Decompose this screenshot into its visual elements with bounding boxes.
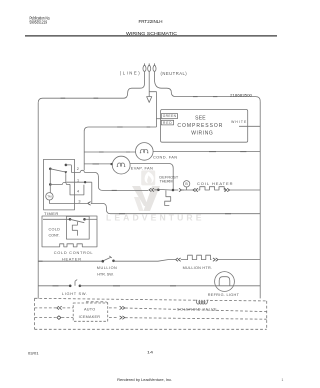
svg-text:(LINE): (LINE) — [120, 71, 140, 76]
cold control blade — [70, 219, 84, 222]
dashed wire to icemaker upper — [35, 308, 267, 312]
wire: terminal 2 out with hop, to red riser — [71, 170, 84, 172]
timer motor circle TM — [46, 193, 53, 200]
svg-text:WIRING: WIRING — [191, 130, 213, 136]
wire: terminal 2 continues to defrost drop — [84, 172, 148, 190]
plug prong (ground) — [148, 63, 151, 71]
plug prong (line) — [143, 63, 146, 71]
wire: dot A to dot C and timer motor — [49, 169, 51, 193]
connector chevrons before coil heater — [193, 188, 198, 191]
wire: between therm and relay circle — [174, 189, 178, 191]
svg-text:SEE: SEE — [195, 116, 206, 122]
svg-text:MULLION: MULLION — [97, 266, 117, 270]
svg-text:COLD: COLD — [49, 228, 61, 232]
svg-text:COLD CONTROL: COLD CONTROL — [54, 250, 94, 255]
svg-text:COND. FAN: COND. FAN — [153, 155, 177, 160]
compressor box — [161, 110, 248, 143]
mullion switch blade — [104, 256, 112, 261]
svg-text:Rendered by LeadVenture, Inc.: Rendered by LeadVenture, Inc. — [117, 378, 172, 382]
svg-text:AUTO: AUTO — [84, 307, 95, 311]
svg-text:ICEMAKER: ICEMAKER — [79, 315, 101, 319]
svg-text:EVAP. FAN: EVAP. FAN — [131, 165, 153, 170]
mullion heater element — [181, 255, 212, 259]
splice mark on cond fan wire — [209, 151, 216, 153]
splice mark on cond fan feed right — [126, 151, 130, 153]
green terminal tab — [161, 114, 177, 119]
splice mark on NEUTRAL wire — [213, 96, 217, 98]
cold control inner switch box — [66, 216, 89, 239]
mullion switch dot left — [102, 260, 105, 263]
defrost therm contact dot left — [157, 189, 160, 192]
wire: cond fan feed — [84, 151, 135, 153]
defrost therm contact dot right — [172, 189, 175, 192]
header rule — [25, 35, 277, 37]
wire: chord through lamp — [215, 285, 235, 287]
wire: red from compressor to timer feed — [84, 127, 156, 170]
light switch plunger — [75, 280, 77, 286]
splice mark on red wire — [147, 126, 151, 128]
svg-text:14: 14 — [147, 351, 153, 355]
svg-text:HTR. SW.: HTR. SW. — [97, 273, 113, 277]
connector chevrons after therm — [179, 188, 184, 191]
wire: ground branch to compressor green — [149, 92, 156, 127]
wire: mullion heater to right rail — [218, 259, 260, 261]
ground symbol arrow — [147, 97, 152, 103]
svg-text:5995351219: 5995351219 — [30, 20, 48, 25]
wire: mullion row to heater — [114, 260, 176, 262]
svg-text:(NEUTRAL): (NEUTRAL) — [161, 71, 188, 76]
wire: terminal 3 row to right rail with jog — [92, 203, 260, 213]
junction dot terminal 1 — [84, 181, 86, 183]
wire: dot C to terminal 4 with hop — [50, 182, 70, 184]
svg-text:REFRIG. LIGHT: REFRIG. LIGHT — [208, 293, 240, 297]
svg-text:03/01: 03/01 — [28, 352, 39, 356]
timer contact dot A — [49, 168, 52, 171]
connector chevrons before mullion heater — [176, 258, 181, 261]
defrost therm bimetal staircase — [165, 190, 171, 205]
wire: terminal 4 loop — [70, 184, 84, 195]
dashed stub from icemaker top — [86, 302, 108, 303]
svg-text:TIMER: TIMER — [44, 211, 58, 216]
svg-text:MULLION HTR.: MULLION HTR. — [183, 266, 212, 270]
timer switch arm — [50, 169, 65, 172]
terminal symbol icemaker lower in — [57, 316, 61, 320]
splice mark on LINE wire — [94, 97, 99, 99]
splice mark on light row — [113, 285, 120, 287]
defrost limit circle B — [183, 181, 189, 187]
wire: evap fan to defrost node — [130, 164, 173, 190]
wire: light row to lamp — [80, 285, 215, 287]
timer contact dot B — [65, 164, 68, 167]
cold control box with heater bumps in bottom edge — [42, 216, 97, 247]
icemaker harness dashed bottom border — [35, 328, 267, 330]
defrost therm blade — [158, 188, 173, 191]
icemaker harness dashed top border — [35, 298, 267, 301]
splice mark on LINE wire — [61, 97, 66, 99]
cond fan motor circle — [136, 143, 154, 161]
connector chevrons before defrost therm — [149, 188, 157, 191]
connector chevrons after coil heater — [224, 188, 229, 191]
splice mark on terminal 3 row right — [225, 213, 231, 215]
wire: LINE from plug to left rail — [38, 71, 144, 102]
splice mark on NEUTRAL wire — [193, 96, 198, 98]
svg-text:CONT.: CONT. — [49, 234, 60, 238]
connector chevrons icemaker upper in — [57, 306, 62, 309]
wire: NEUTRAL from plug to right rail — [155, 71, 261, 101]
coil heater element — [198, 187, 226, 190]
wire: lamp to right rail — [234, 285, 260, 287]
svg-text:COMPRESSOR: COMPRESSOR — [177, 123, 222, 129]
timer contact dot C — [49, 183, 52, 186]
splice mark on cond fan wire right — [240, 151, 246, 153]
svg-text:RED: RED — [163, 121, 172, 125]
svg-text:LIGHT SW.: LIGHT SW. — [62, 291, 87, 296]
wire: ground prong lead — [148, 71, 150, 96]
stem from circle B to wire — [184, 187, 193, 190]
connector chevrons icemaker upper out — [120, 306, 125, 309]
light switch dot left — [69, 285, 72, 288]
plug prong (neutral) — [153, 63, 156, 71]
lamp filament — [219, 277, 230, 286]
icemaker harness dashed left border — [34, 298, 36, 329]
svg-text:COIL HEATER: COIL HEATER — [197, 181, 233, 186]
wire: cond fan to right rail — [153, 151, 260, 153]
evap fan winding — [117, 163, 126, 166]
svg-text:FRT22INLH: FRT22INLH — [139, 19, 163, 24]
dashed wire to icemaker lower — [35, 318, 267, 320]
svg-text:4: 4 — [77, 189, 79, 193]
auto icemaker dashed box — [73, 303, 108, 321]
wire: timer motor to terminal 3 row — [49, 200, 87, 203]
mullion switch dot right — [112, 260, 115, 263]
junction dot evap feed — [110, 163, 112, 165]
wire: arm contact to terminal 1 — [66, 174, 92, 182]
svg-text:2: 2 — [77, 167, 79, 171]
wire: light row left — [38, 285, 69, 287]
splice mark defrost feed — [112, 189, 117, 191]
solenoid valve coil — [195, 300, 208, 304]
left rail — [37, 103, 39, 299]
svg-text:1: 1 — [282, 378, 284, 382]
connector chevron on terminal 3 row — [88, 202, 92, 206]
red terminal tab — [161, 120, 173, 125]
wire: cold control feed — [43, 218, 70, 220]
svg-text:THERM: THERM — [160, 180, 173, 184]
wire: cold control out — [85, 218, 98, 220]
splice mark on red wire — [117, 126, 122, 128]
splice mark on terminal 3 row — [119, 213, 125, 215]
splice mark on evap fan feed — [93, 163, 100, 165]
wire: mullion heater row left — [38, 260, 102, 262]
svg-text:WHITE: WHITE — [231, 120, 247, 124]
svg-text:SOLENOID VALVE: SOLENOID VALVE — [177, 308, 217, 312]
splice mark on light row right — [170, 285, 176, 287]
connector chevrons after mullion heater — [213, 258, 218, 261]
splice mark on cond fan feed — [99, 151, 104, 153]
wire: dot B to terminal 2 — [66, 165, 72, 173]
cold control bellows staircase — [72, 222, 77, 236]
timer arm arrowhead — [64, 171, 67, 174]
svg-text:1: 1 — [77, 178, 79, 182]
light switch dot right — [79, 285, 82, 288]
wire: green stub into tab — [156, 118, 161, 120]
wire: terminal 1 riser to timer motor row — [91, 182, 93, 203]
splice mark on light row near rail — [53, 285, 59, 287]
wire: coil heater to right rail — [230, 189, 260, 191]
timer box — [44, 159, 75, 210]
cold control contact dot right — [83, 218, 86, 221]
watermark logo V strokes — [132, 186, 148, 206]
wire: evap fan feed — [84, 163, 111, 165]
right rail — [259, 101, 261, 298]
connector chevrons icemaker lower out — [120, 316, 125, 319]
wire: white lead to right rail — [239, 125, 260, 127]
splice mark at rail on mullion row — [39, 260, 43, 262]
watermark flame badge — [141, 170, 155, 185]
evap fan motor circle — [112, 156, 130, 174]
cond fan winding — [140, 149, 149, 152]
svg-text:B: B — [185, 182, 188, 186]
svg-text:HEATER: HEATER — [62, 256, 81, 261]
icemaker harness dashed right border — [266, 301, 268, 329]
svg-text:GREEN: GREEN — [163, 114, 177, 118]
refrigerator light bulb circle — [215, 272, 235, 292]
cold control contact dot left — [69, 218, 72, 221]
svg-text:TM: TM — [47, 195, 52, 199]
